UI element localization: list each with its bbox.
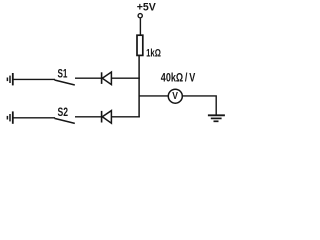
switch S2 label: [58, 107, 69, 120]
+5V supply label: [137, 1, 157, 13]
svg-text:1kΩ: 1kΩ: [146, 47, 161, 60]
diode D2 cathode bar: [101, 111, 103, 123]
resistor value 1kΩ: [146, 47, 161, 60]
supply terminal: [138, 14, 142, 18]
diode D1 cathode bar: [101, 72, 103, 84]
ground (chassis, branch 2): [7, 111, 12, 123]
wire diode D2 to bus: [111, 116, 139, 118]
voltmeter M1: [168, 89, 182, 103]
svg-text:S1: S1: [58, 68, 68, 81]
svg-text:+5V: +5V: [137, 1, 157, 13]
diode D1 triangle: [102, 72, 111, 85]
wire ground to switch S2: [13, 117, 55, 119]
wire bus to voltmeter: [139, 95, 169, 97]
voltmeter sensitivity label 40kΩ/V: [161, 73, 196, 85]
wire switch S1 to diode D1: [75, 77, 101, 79]
wire vertical bus: [138, 56, 140, 118]
ground (earth, right): [208, 115, 225, 121]
svg-text:V: V: [172, 90, 178, 102]
resistor R1: [137, 35, 143, 55]
svg-text:S2: S2: [58, 107, 69, 120]
switch S1 blade: [55, 80, 75, 85]
wire ground to switch S1: [13, 78, 55, 80]
wire terminal to resistor: [139, 18, 141, 35]
diode D2 triangle: [102, 111, 111, 124]
switch S1 label: [58, 68, 68, 81]
wire switch S2 to diode D2: [75, 116, 101, 118]
ground (chassis, branch 1): [7, 73, 12, 85]
wire diode D1 to bus: [111, 77, 139, 79]
svg-text:40kΩ / V: 40kΩ / V: [161, 73, 196, 85]
wire voltmeter to earth ground: [182, 96, 216, 115]
switch S2 blade: [55, 118, 75, 123]
